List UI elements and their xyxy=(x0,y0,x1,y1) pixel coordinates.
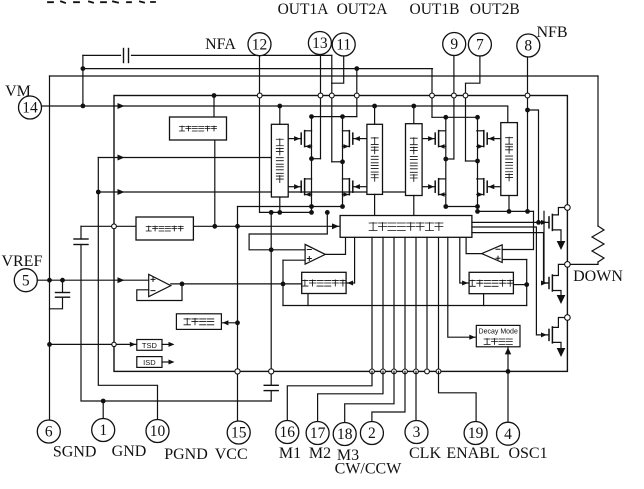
wire buffer output to current-select A xyxy=(171,283,302,285)
pin 1 GND xyxy=(92,419,115,442)
wire comparator A2 minus input from NFA xyxy=(249,212,327,249)
crossing circle VCC at box bottom xyxy=(235,369,240,374)
svg-text:13: 13 xyxy=(312,35,328,52)
wire block B1 bottom tap xyxy=(413,196,415,216)
pin 3 CLK xyxy=(405,421,428,444)
pin 4 OSC1 xyxy=(497,422,520,445)
pin 19 ENABL xyxy=(464,422,487,445)
current select block A (denryuu sentaku kairo) xyxy=(302,272,346,293)
IC boundary box xyxy=(114,96,567,372)
transistor QA3 high-side right xyxy=(352,133,354,144)
control bus verticals from logic block xyxy=(371,237,373,371)
junction dot NFA line at x=83 xyxy=(81,66,86,71)
wire bridge A high-side drain line xyxy=(312,116,357,118)
svg-text:1: 1 xyxy=(99,422,107,439)
svg-text:17: 17 xyxy=(310,425,326,442)
arrow into decay block xyxy=(469,335,475,340)
junction dot current-select B right tap xyxy=(524,282,529,287)
wire PGND riser xyxy=(98,158,157,419)
regulator block REG1 (regulator 1) xyxy=(136,217,193,240)
svg-text:19: 19 xyxy=(468,425,484,442)
junction dot comparator A2 minus on NFA rail xyxy=(325,210,330,215)
wire current-select A command xyxy=(346,237,355,283)
svg-text:CLK: CLK xyxy=(409,445,441,462)
wire current-select B bottom tap xyxy=(483,294,485,306)
wire pin1 drop xyxy=(102,401,104,418)
svg-text:6: 6 xyxy=(45,424,53,441)
pin 16 M1 xyxy=(276,421,299,444)
junction dot bridge-A feed tap xyxy=(354,66,359,71)
wire NFA filter column xyxy=(270,212,272,385)
junction dot VREF cap tap xyxy=(60,278,65,283)
arrow PGND entry B xyxy=(118,189,125,195)
crossing bumps control bus on box bottom edge xyxy=(370,369,375,374)
wire M3 staircase to pin 18 xyxy=(345,371,394,422)
junction dot PGND branch xyxy=(96,190,101,195)
junction dot NFB on T1 gate line xyxy=(536,220,541,225)
svg-text:16: 16 xyxy=(280,424,296,441)
wire buffer feedback loop xyxy=(137,284,182,301)
pin 8 NFB xyxy=(517,34,540,57)
junction dot NFA filter on rail xyxy=(269,210,274,215)
junction dot OSC1 on box bottom edge xyxy=(506,369,511,374)
node OUT2A mid junction xyxy=(332,161,343,163)
wire pin13 OUT1A column xyxy=(320,55,322,159)
junction dot TSD tap on SGND rail xyxy=(47,342,52,347)
op-block pre-stage B2 (shutsuryoku puri-dan) xyxy=(501,123,518,196)
junction dot NFB branch xyxy=(525,108,530,113)
transistor QB4 low-side right xyxy=(486,181,488,192)
wire CW/CCW staircase to pin 2 xyxy=(372,371,405,421)
pin 17 M2 xyxy=(306,422,329,445)
svg-text:11: 11 xyxy=(336,37,351,54)
op-block pre-stage B1 (shutsuryoku puri-dan) xyxy=(406,124,423,196)
svg-text:TSD: TSD xyxy=(142,341,158,350)
node right rail T1 drain xyxy=(565,205,571,211)
wire bridge B left leg xyxy=(445,117,447,206)
wire VCC column xyxy=(237,207,239,422)
wire PGND distribution to block A1 xyxy=(98,157,271,159)
node OUT1A mid junction xyxy=(312,158,321,160)
svg-text:7: 7 xyxy=(476,37,484,54)
ISD block (over-current shutdown) xyxy=(137,357,162,368)
wire bridge A left leg xyxy=(311,117,313,207)
transistor Q6 (middle right) xyxy=(548,278,550,289)
crossing circle regulator cap line at box edge xyxy=(112,224,117,229)
wire bridge A right leg xyxy=(342,117,344,207)
oscillator block (hasshin kairo) xyxy=(176,314,221,330)
junction dot regulator2 tap on box edge xyxy=(212,93,217,98)
wire comparator A output to logic xyxy=(325,237,345,254)
pin 11 OUT2A xyxy=(332,33,355,56)
svg-text:3: 3 xyxy=(413,424,421,441)
capacitor C1 (top-left) xyxy=(123,49,125,63)
svg-text:OUT1A: OUT1A xyxy=(278,1,330,18)
wire TSD input from SGND rail xyxy=(50,343,137,345)
arrow VM entry xyxy=(118,103,125,109)
wire OSC1 riser to decay block xyxy=(507,347,509,421)
wire current-select B right link xyxy=(513,284,526,286)
arrow T3 gate xyxy=(541,332,547,337)
wire block A1 bottom tap xyxy=(279,197,281,212)
svg-text:VREF: VREF xyxy=(1,253,42,270)
junction dot block A2 supply tap xyxy=(372,104,377,109)
pin 14 VM xyxy=(19,96,42,119)
wire bridge A gates from block A1 xyxy=(288,138,301,140)
svg-text:NFB: NFB xyxy=(536,24,567,41)
crossing bump TSD line at box edge xyxy=(112,342,116,346)
svg-text:10: 10 xyxy=(150,423,166,440)
transistor Q7 (bottom right) xyxy=(548,329,550,340)
wire logic to T3 gate xyxy=(472,227,548,335)
node OUT2B mid junction xyxy=(466,160,478,162)
wire snubber-cap top line (VM to OUT2A column) xyxy=(83,54,121,56)
node OUT1B mid junction xyxy=(446,158,454,160)
cropped title text remnant xyxy=(48,1,155,2)
transistor QA1 high-side left xyxy=(300,133,302,144)
pin 15 VCC xyxy=(227,421,250,444)
arrow OSC1 into decay block xyxy=(505,347,511,354)
arrow T2 gate xyxy=(541,280,547,285)
wire NFA/VM distribution line y=69 xyxy=(83,68,433,70)
wire CLK drop to pin 3 xyxy=(415,371,417,420)
wire current-select A bottom tap xyxy=(307,294,309,306)
junction dot VM line at x=83 xyxy=(81,104,86,109)
arrow into oscillator xyxy=(222,320,228,325)
svg-text:SGND: SGND xyxy=(53,444,97,461)
junction dot buffer feedback xyxy=(180,282,185,287)
wire comparator B2 minus input from NFB xyxy=(502,211,533,249)
capacitor C2 (VREF filter) xyxy=(62,280,64,292)
op-amp comparator A2 (current comparator) xyxy=(305,244,325,264)
wire pin12 NFA column xyxy=(259,56,261,213)
wire pin11 jog to OUT2A column xyxy=(332,56,344,83)
wire cap line drop to OUT2A column xyxy=(331,55,333,83)
wire GND column with cap xyxy=(80,226,82,239)
svg-text:GND: GND xyxy=(112,443,147,460)
pin 9 OUT1B xyxy=(443,33,466,56)
op-block pre-stage A2 (shutsuryoku puri-dan) xyxy=(367,124,383,194)
svg-text:ENABL: ENABL xyxy=(446,445,499,462)
pin 18 M3 xyxy=(333,423,356,446)
junction dot block A1 supply tap xyxy=(277,104,282,109)
junction dot on buffer output line xyxy=(281,282,286,287)
transistor QB2 low-side left xyxy=(434,181,436,192)
svg-text:4: 4 xyxy=(504,426,512,443)
op-amp U2 VREF buffer xyxy=(149,274,171,296)
svg-text:VCC: VCC xyxy=(215,446,248,463)
transistor QA4 low-side right xyxy=(352,181,354,192)
svg-text:OUT1B: OUT1B xyxy=(410,1,460,18)
svg-text:OUT2A: OUT2A xyxy=(337,1,389,18)
transistor Q5 (top right) xyxy=(548,217,550,228)
wire ENABL route to pin 19 xyxy=(439,371,477,421)
logic block U1 output control logic xyxy=(340,216,472,238)
svg-text:Decay Mode: Decay Mode xyxy=(479,328,518,335)
regulator block REG2 (regulator 2) xyxy=(170,117,227,140)
wire PGND distribution to block B1 xyxy=(98,191,405,193)
junction dot NFA filter column tap xyxy=(269,247,274,252)
svg-text:VM: VM xyxy=(5,83,31,100)
node right rail T3 drain xyxy=(565,315,571,321)
junction dot VREF on SGND rail xyxy=(47,278,52,283)
arrow TSD output xyxy=(162,343,171,345)
wire NFB branch down to T1 gate line xyxy=(528,110,539,222)
arrow regulator line into logic xyxy=(332,223,339,229)
arrow into current-select B xyxy=(462,280,468,285)
svg-text:ISD: ISD xyxy=(143,358,156,367)
arrow into TSD xyxy=(130,342,136,347)
arrow ISD output xyxy=(162,361,171,363)
svg-text:NFA: NFA xyxy=(205,36,236,53)
wire comparator B plus riser xyxy=(526,260,528,306)
crossing circle NFA filter at box bottom xyxy=(269,369,274,374)
wire regulator1 line to logic block xyxy=(81,225,340,227)
transistor QA2 low-side left xyxy=(300,181,302,192)
wire bridge B high-side drain line xyxy=(432,116,478,118)
wire pin7 jog to OUT2B column xyxy=(466,56,480,161)
wire bridge-A feed drop x=356.8 xyxy=(356,69,358,117)
TSD block (thermal shutdown) xyxy=(137,340,162,351)
wire pin8 NFB column xyxy=(527,57,529,211)
svg-text:5: 5 xyxy=(22,272,30,289)
svg-text:15: 15 xyxy=(231,425,247,442)
decay mode block (Decay Mode settei kairo) xyxy=(476,325,520,346)
pin 13 OUT1A xyxy=(308,32,331,55)
svg-text:CW/CCW: CW/CCW xyxy=(335,461,403,478)
svg-text:PGND: PGND xyxy=(164,446,208,463)
svg-text:2: 2 xyxy=(368,425,376,442)
resistor R1 (DOWN current-set) xyxy=(592,226,604,262)
wire VM-SGND outer left rail (pin 6 SGND riser / box left feed) xyxy=(49,76,51,420)
pin 7 OUT2B xyxy=(468,33,491,56)
wire OUT2A column xyxy=(331,83,333,162)
wire comparator A2 plus input xyxy=(283,259,305,261)
wire NFB sense rail xyxy=(478,210,534,212)
wire bridge B gates from block B2 xyxy=(487,138,501,140)
svg-text:9: 9 xyxy=(450,36,458,53)
arrow T1 gate xyxy=(541,220,547,225)
arrow PGND entry A xyxy=(118,155,125,161)
wire VM pin to box xyxy=(42,105,115,107)
pin 12 NFA xyxy=(248,33,271,56)
wire bridge B bottom tie xyxy=(446,206,478,208)
junction dot NFA rail tap xyxy=(309,210,314,215)
wire logic to T1 gate xyxy=(472,221,548,223)
wire pin9 OUT1B column xyxy=(453,56,455,160)
wire comparator B2 plus input xyxy=(502,259,527,261)
svg-text:OUT2B: OUT2B xyxy=(470,1,520,18)
svg-text:M1: M1 xyxy=(279,445,301,462)
junction dot oscillator supply tap xyxy=(235,320,240,325)
pin 10 PGND xyxy=(146,420,169,443)
arrow VREF entry xyxy=(118,277,125,283)
wire oscillator feed xyxy=(221,322,237,324)
junction dot block B1 supply tap xyxy=(411,104,416,109)
svg-text:8: 8 xyxy=(524,38,532,55)
svg-text:18: 18 xyxy=(337,426,353,443)
svg-text:OSC1: OSC1 xyxy=(508,445,547,462)
wire bridge-B feed drop x=432.5 xyxy=(431,69,433,118)
arrow into current-select A xyxy=(347,280,353,285)
wire resistor feed drop on right xyxy=(597,76,599,226)
wire top rail from box corner to resistor feed xyxy=(50,75,599,77)
wire bridge A gates from block A2 xyxy=(353,138,367,140)
node DOWN on right rail xyxy=(565,262,571,268)
transistor QB3 high-side right xyxy=(486,133,488,144)
wire M1 staircase to pin 16 xyxy=(287,371,372,420)
wire VM rail inside box xyxy=(114,106,508,123)
capacitor C3 (VCC bypass) xyxy=(264,384,278,386)
svg-text:M2: M2 xyxy=(309,445,331,462)
wire cross link between channels xyxy=(283,305,527,307)
wire bridge B right leg xyxy=(477,117,479,206)
transistor QB1 high-side left xyxy=(434,133,436,144)
svg-text:14: 14 xyxy=(22,100,38,117)
junction dot GND pin tap xyxy=(101,399,106,404)
pin 6 SGND xyxy=(37,420,60,443)
wire decay mode input from logic xyxy=(448,237,477,337)
wire current-select B command xyxy=(460,237,469,283)
op-block pre-stage A1 (shutsuryoku puri-dan) xyxy=(271,124,288,197)
wire resistor bottom to DOWN node xyxy=(597,262,599,264)
wire bridge A bottom tie xyxy=(238,206,343,208)
wire comparator A plus riser xyxy=(282,260,284,305)
svg-text:DOWN: DOWN xyxy=(573,268,623,285)
pin 5 VREF xyxy=(14,269,37,292)
wire logic to T2 gate xyxy=(472,233,548,283)
wire VREF line into box xyxy=(37,279,148,281)
wire bridge B gates from block B1 xyxy=(422,138,435,140)
wire comparator B output to logic xyxy=(466,237,482,253)
current select block B (denryuu sentaku kairo) xyxy=(469,272,513,293)
junction dot NFB rail taps xyxy=(475,209,480,214)
wire T2 gate feed xyxy=(544,211,548,283)
junction dot VCC column on regulator line xyxy=(235,224,240,229)
wire NFA sense rail xyxy=(260,211,312,213)
wire regulator2 top tap to box edge xyxy=(213,96,215,118)
crossing bumps top edge xyxy=(257,93,262,98)
svg-text:12: 12 xyxy=(252,36,268,53)
node VM junction column at x=83 xyxy=(82,55,84,106)
wire M2 staircase to pin 17 xyxy=(318,371,383,421)
op-amp comparator B2 (current comparator, mirrored) xyxy=(482,245,503,263)
junction dot regulator2 bottom tap xyxy=(214,140,216,226)
pin 2 CW/CCW xyxy=(360,422,383,445)
